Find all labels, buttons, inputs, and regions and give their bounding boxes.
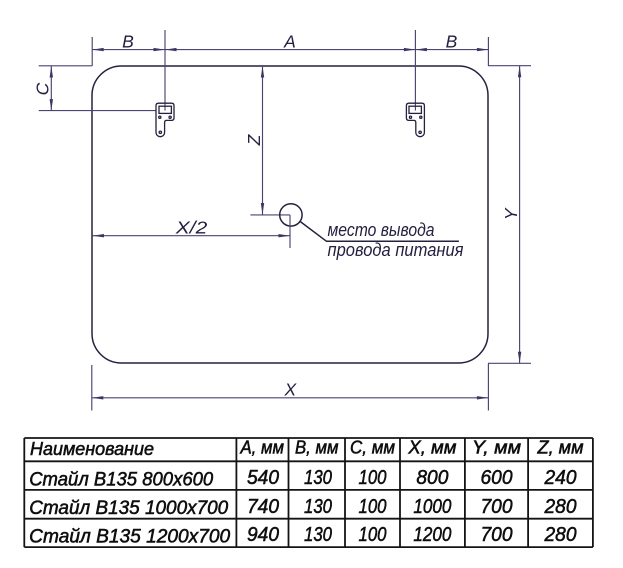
svg-text:X, мм: X, мм: [407, 438, 456, 458]
svg-text:Z: Z: [244, 133, 264, 146]
arrow pair at 165: [154, 48, 166, 51]
svg-text:100: 100: [359, 523, 387, 546]
svg-text:1200: 1200: [413, 523, 451, 546]
svg-text:100: 100: [359, 466, 387, 489]
svg-text:A: A: [283, 32, 296, 52]
bracket left: [156, 103, 174, 137]
svg-text:Y, мм: Y, мм: [472, 438, 521, 458]
Z dimension: [262, 66, 264, 215]
table grid: [24, 438, 593, 547]
svg-text:B: B: [446, 32, 458, 52]
extension line bracket left x=165: [164, 30, 166, 111]
leader line: [300, 222, 459, 242]
extension line left x=92: [91, 37, 93, 66]
arrow at 488 right: [477, 48, 489, 51]
svg-text:C, мм: C, мм: [350, 438, 395, 458]
extension line right x=488: [487, 37, 489, 66]
svg-text:Наименование: Наименование: [30, 439, 154, 459]
svg-text:800: 800: [416, 466, 449, 489]
top dimension line B-A-B: [92, 49, 488, 51]
svg-text:Стайл В135 1200х700: Стайл В135 1200х700: [29, 527, 230, 548]
svg-text:100: 100: [359, 495, 387, 518]
svg-text:B, мм: B, мм: [295, 438, 339, 458]
svg-text:740: 740: [247, 495, 280, 518]
svg-text:240: 240: [544, 466, 577, 489]
svg-text:X: X: [283, 380, 297, 400]
C dimension: [39, 65, 92, 67]
svg-text:место вывода: место вывода: [328, 220, 435, 240]
svg-text:940: 940: [247, 523, 280, 546]
svg-text:130: 130: [304, 523, 332, 546]
svg-text:600: 600: [481, 466, 514, 489]
svg-text:700: 700: [481, 523, 514, 546]
svg-text:A, мм: A, мм: [240, 438, 284, 458]
power outlet circle: [280, 204, 302, 226]
svg-text:1000: 1000: [413, 495, 451, 518]
mirror outline: [92, 66, 488, 363]
svg-text:провода питания: провода питания: [328, 240, 464, 260]
bracket right: [406, 103, 424, 137]
svg-text:C: C: [33, 82, 53, 95]
X/2 dimension: [93, 235, 291, 237]
arrow at 92 left: [92, 48, 104, 51]
extension below circle: [289, 215, 291, 248]
svg-text:Стайл В135 800х600: Стайл В135 800х600: [29, 469, 213, 490]
svg-text:Стайл В135 1000х700: Стайл В135 1000х700: [29, 498, 228, 519]
svg-text:540: 540: [247, 466, 280, 489]
extension line bracket right x=415.5: [414, 30, 416, 111]
svg-text:X/2: X/2: [175, 218, 208, 238]
svg-text:700: 700: [481, 495, 514, 518]
svg-text:130: 130: [304, 495, 332, 518]
X dimension: [91, 365, 93, 411]
Y dimension: [488, 65, 531, 67]
svg-text:Y: Y: [501, 207, 521, 220]
svg-text:Z, мм: Z, мм: [536, 438, 583, 458]
svg-text:280: 280: [544, 523, 577, 546]
svg-text:B: B: [122, 32, 134, 52]
arrow pair at 415.5: [404, 48, 416, 51]
svg-text:280: 280: [544, 495, 577, 518]
svg-text:130: 130: [304, 466, 332, 489]
